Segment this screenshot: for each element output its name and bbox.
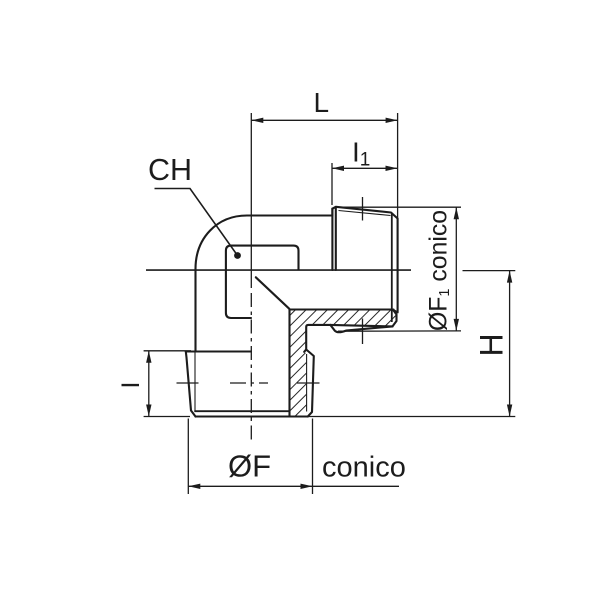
svg-text:CH: CH [148,153,192,187]
svg-text:ØF1 conico: ØF1 conico [426,210,454,331]
svg-text:H: H [474,333,510,356]
svg-text:I: I [117,382,145,389]
svg-text:ØF: ØF [228,449,271,484]
svg-text:conico: conico [322,452,406,484]
svg-text:L: L [314,87,330,118]
